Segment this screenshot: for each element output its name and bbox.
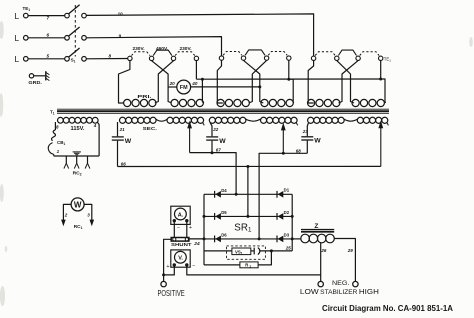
svg-text:SHUNT: SHUNT [171, 242, 192, 247]
diode D5 [214, 213, 216, 220]
junction dot left bus row3 [203, 237, 206, 240]
wire hook below CB1 [48, 143, 54, 156]
switch S1 gang link (dashed) [74, 5, 76, 57]
svg-text:W: W [219, 138, 226, 145]
primary winding P2 left [217, 99, 224, 106]
svg-text:PRI.: PRI. [137, 94, 151, 99]
wire P3 cross a [337, 61, 354, 103]
svg-text:230V.: 230V. [132, 46, 144, 52]
capacitor C21 [112, 136, 124, 138]
svg-text:25: 25 [285, 246, 292, 251]
switch S1 pole 1 contact right [82, 13, 87, 18]
wire P2 cross a [244, 60, 264, 103]
svg-text:−: − [192, 264, 195, 270]
secondary winding SB part1 [209, 117, 215, 123]
junction dot right bus row3 [291, 237, 294, 240]
tap arrow winding SB [282, 129, 284, 154]
switch S1 pole 1 contact [65, 13, 70, 18]
primary winding P2 right [261, 99, 268, 106]
resistor R1 box [240, 262, 258, 268]
switch S1 pole 1 blade [68, 5, 79, 14]
choke tap to LOW [320, 243, 322, 282]
wire P1 tap1 to winding [119, 61, 130, 103]
diode D4 [214, 191, 216, 198]
arrow W left [61, 220, 66, 227]
wire V- to LOW [187, 265, 321, 275]
svg-text:HIGH: HIGH [359, 287, 379, 296]
primary P2 link 3-4 (dashed) [268, 52, 287, 56]
wire bridge to choke [292, 238, 301, 240]
bridge row 2 wire [204, 215, 292, 217]
svg-text:FM: FM [180, 85, 188, 91]
wire VS1 row right [260, 250, 292, 252]
receptacle RC2 contact c [87, 156, 89, 163]
receptacle RC2 contact a [65, 156, 67, 163]
wire 9 [86, 37, 221, 56]
voltmeter terminal right [185, 263, 188, 266]
svg-text:W: W [314, 138, 321, 145]
primary P1 tap circle 2 [149, 56, 153, 60]
primary P2 link 2-3 [245, 50, 265, 55]
switch S1 pole 3 blade [68, 48, 79, 57]
svg-text:67: 67 [216, 148, 222, 153]
wire 68 [259, 153, 307, 239]
wire choke to HIGH [334, 239, 355, 282]
junction dot right bus row2 [291, 215, 294, 218]
secondary winding SB part2 [261, 117, 267, 123]
capacitor C22 lead top [210, 123, 212, 137]
capacitor C23 lead top [307, 123, 308, 136]
wire A+ to shunt [186, 221, 188, 238]
junction dot wire40/P2 cross [258, 85, 261, 88]
svg-text:GRD.: GRD. [28, 80, 42, 85]
svg-text:A.: A. [178, 212, 184, 218]
svg-text:24: 24 [193, 241, 200, 247]
primary winding P3 right [352, 99, 359, 106]
primary P3 link 3-4 (dashed) [360, 52, 379, 56]
primary P2 tap circle 4 [287, 56, 291, 60]
svg-text:22: 22 [212, 127, 219, 132]
svg-text:9: 9 [119, 33, 122, 38]
svg-text:D5: D5 [221, 210, 227, 215]
switch S1 pole 2 contact right [82, 36, 87, 41]
wire 115V left end [54, 122, 56, 130]
svg-text:40: 40 [191, 81, 198, 86]
switch S1 pole 3 contact [65, 57, 70, 62]
junction dot row1 [235, 193, 238, 196]
secondary winding SA part2 [167, 117, 173, 123]
svg-text:115V.: 115V. [71, 126, 86, 132]
capacitor C22 [206, 136, 218, 138]
terminal POSITIVE [161, 281, 166, 286]
svg-text:NEG.: NEG. [332, 280, 350, 287]
primary P3 tap circle 4 [379, 56, 383, 60]
svg-text:LOW: LOW [300, 287, 320, 296]
bridge row 3 wire [189, 238, 292, 240]
choke Z core [301, 228, 334, 230]
svg-text:W: W [74, 200, 82, 209]
terminal LOW [318, 281, 323, 286]
wire VS1 to cap [251, 250, 254, 252]
switch S1 pole 2 blade [68, 27, 79, 36]
ammeter terminal left [173, 219, 176, 222]
svg-text:4: 4 [93, 123, 97, 128]
svg-text:D2: D2 [284, 210, 290, 215]
wire A- to shunt [173, 221, 175, 238]
primary P2 link 1-2 (dashed) [223, 52, 242, 56]
capacitor C21 lead top [117, 122, 119, 136]
wire 115V right end [98, 122, 100, 156]
primary P1 link 3-4 (dashed) [175, 52, 195, 56]
wire 7 (L1 to switch) [28, 15, 65, 17]
wire FM left [168, 86, 177, 88]
switch S1 pole 2 contact [65, 36, 70, 41]
primary P1 link 2-3 [153, 50, 172, 55]
svg-text:V.: V. [178, 256, 183, 262]
wire P2 right riser [289, 79, 294, 103]
wire P3 tap4 down [380, 61, 382, 80]
primary P1 tap circle 4 [194, 56, 198, 60]
diode D3 [276, 236, 278, 243]
component VS1 box [232, 248, 251, 255]
svg-text:L: L [15, 12, 20, 21]
primary winding P1 left [124, 99, 131, 106]
wire (ground) [34, 75, 46, 77]
svg-text:10: 10 [118, 11, 124, 16]
svg-text:21: 21 [119, 127, 126, 132]
primary P1 tap circle 3 [171, 56, 175, 60]
wire P1 tap4 down [195, 61, 197, 79]
wire P3 tap1 to winding [308, 61, 314, 103]
wire P1 cross b [155, 61, 174, 103]
primary P2 tap circle 1 [219, 56, 223, 60]
svg-text:6: 6 [47, 32, 50, 37]
svg-text:SEC.: SEC. [143, 126, 158, 132]
choke Z coil [301, 234, 310, 243]
shunt bar [171, 238, 189, 242]
voltmeter V circle [175, 251, 187, 263]
wire 66 [118, 165, 381, 167]
junction dot row3 mid [258, 237, 261, 240]
secondary winding SC link [344, 119, 358, 121]
svg-text:−: − [177, 225, 180, 231]
receptacle RC2 contact b [76, 156, 78, 163]
secondary winding SB link [245, 119, 261, 121]
diode D1 [276, 191, 278, 198]
terminal HIGH [353, 281, 358, 286]
wire 67 [190, 153, 237, 195]
wire R1 row left [204, 264, 240, 266]
ammeter A circle [175, 208, 187, 220]
svg-text:7: 7 [47, 16, 50, 21]
svg-text:26: 26 [320, 248, 327, 253]
wire P2 tap1 to winding [217, 60, 223, 103]
wire P3 right riser [381, 79, 386, 103]
wire P1 right riser [202, 79, 204, 103]
junction dot VS1/R1 [270, 249, 273, 252]
ground symbol [45, 71, 47, 80]
primary P3 link 2-3 [338, 50, 356, 55]
wire 8 [86, 58, 127, 60]
secondary winding SC part2 [357, 117, 363, 123]
primary P3 link 1-2 (dashed) [315, 52, 335, 56]
bus wire taps-4 [196, 78, 380, 80]
wire 66 to row2 [247, 167, 249, 217]
svg-text:8: 8 [109, 54, 112, 59]
rectifier right bus [291, 194, 293, 251]
wire 6 (L2 to switch) [28, 37, 65, 39]
circuit breaker CB1 [52, 130, 56, 141]
wire 10 [86, 14, 313, 56]
junction dot C22/wire67 [211, 151, 214, 154]
capacitor curved plate (VS1) [258, 248, 260, 255]
capacitor C22 lead bottom [211, 141, 213, 153]
primary P3 tap circle 2 [335, 56, 339, 60]
wire 40 bus (FM right) [191, 86, 260, 88]
ground terminal circle [29, 74, 33, 78]
primary P2 tap circle 2 [241, 56, 245, 60]
ammeter A box [171, 206, 190, 224]
wire V+ [164, 265, 175, 275]
wire VS1 row left [204, 250, 232, 252]
svg-text:2: 2 [64, 212, 68, 217]
junction dot row2 mid [246, 215, 249, 218]
capacitor C23 [301, 136, 313, 138]
wire W right [84, 204, 92, 220]
junction dot SB-arrow/wire68 [282, 152, 285, 155]
wire P2 tap4 down [288, 60, 290, 79]
junction dot P1 riser [201, 78, 204, 81]
tap arrow winding SC [380, 126, 382, 166]
primary winding P1 right [171, 99, 178, 106]
svg-text:66: 66 [121, 162, 127, 167]
svg-text:D1: D1 [284, 188, 290, 193]
junction dot P3 tap4 [379, 78, 382, 81]
capacitor C23 lead bottom [306, 141, 308, 154]
junction dot wire66 [246, 165, 249, 168]
diode D6 [214, 236, 216, 243]
svg-text:D6: D6 [221, 233, 227, 238]
bridge row 1 wire [204, 193, 292, 195]
svg-text:230V.: 230V. [179, 46, 191, 52]
svg-text:5: 5 [47, 53, 50, 58]
diode D2 [276, 213, 278, 220]
svg-text:Z: Z [314, 223, 318, 230]
junction dot left bus row2 [203, 215, 206, 218]
capacitor C21 lead bottom [117, 141, 119, 167]
svg-text:STABILIZER: STABILIZER [320, 289, 358, 296]
tap arrow winding SA [189, 127, 191, 153]
transformer T1 core [57, 108, 389, 110]
wattmeter W circle [71, 198, 84, 211]
secondary winding SA end hook [203, 123, 204, 126]
secondary winding SA part1 [120, 117, 126, 123]
secondary winding 115V [58, 117, 64, 123]
surge suppressor box (dashed) [227, 246, 266, 259]
junction dot V+/positive [162, 273, 165, 276]
primary P1 tap circle 1 [128, 56, 132, 60]
secondary winding SC end hook [387, 123, 388, 126]
svg-text:460V.: 460V. [156, 46, 168, 52]
svg-text:+: + [166, 264, 169, 270]
wire P2 cross b [249, 60, 267, 103]
svg-text:29: 29 [347, 248, 354, 253]
svg-text:POSITIVE: POSITIVE [158, 289, 186, 298]
primary winding P3 left [308, 99, 315, 106]
wire P1 cross a [152, 61, 172, 103]
primary P2 tap circle 3 [264, 56, 268, 60]
primary P3 tap circle 3 [356, 56, 360, 60]
svg-text:L: L [15, 34, 20, 43]
switch S1 pole 3 contact right [82, 57, 87, 62]
primary P1 link 1-2 (dashed) [132, 52, 151, 56]
secondary winding SA link [156, 119, 168, 121]
wire shunt to bridge [189, 238, 204, 240]
capacitor plate (VS1) [253, 248, 255, 255]
ammeter terminal right [185, 219, 188, 222]
svg-text:Circuit Diagram No. CA-901 851: Circuit Diagram No. CA-901 851-1A [322, 304, 453, 313]
voltmeter terminal left [173, 263, 176, 266]
secondary winding SB end hook [296, 123, 297, 126]
wire shunt to positive [164, 239, 172, 281]
svg-text:L: L [15, 55, 20, 64]
wire 115V bottom [54, 155, 100, 157]
wire P3 cross b [339, 61, 359, 103]
chassis ground (115V) [73, 151, 81, 153]
wire R1 row right [258, 251, 271, 265]
arrow W right [90, 220, 95, 227]
svg-text:D3: D3 [284, 232, 290, 237]
shunt terminal left [173, 238, 176, 241]
shunt terminal right [185, 238, 188, 241]
secondary winding SC part1 [308, 117, 314, 123]
svg-text:W: W [125, 138, 132, 145]
meter FM circle [177, 80, 191, 94]
rectifier left bus [203, 194, 205, 265]
svg-text:20: 20 [169, 81, 176, 86]
junction dot P2 tap4 [287, 78, 290, 81]
wire 5 (L3 to switch) [28, 58, 65, 60]
svg-text:+: + [189, 225, 192, 231]
primary P3 tap circle 1 [311, 56, 315, 60]
svg-text:68: 68 [296, 148, 302, 153]
voltmeter V box [171, 250, 190, 267]
svg-text:D4: D4 [221, 188, 227, 193]
wire W left [63, 204, 71, 220]
